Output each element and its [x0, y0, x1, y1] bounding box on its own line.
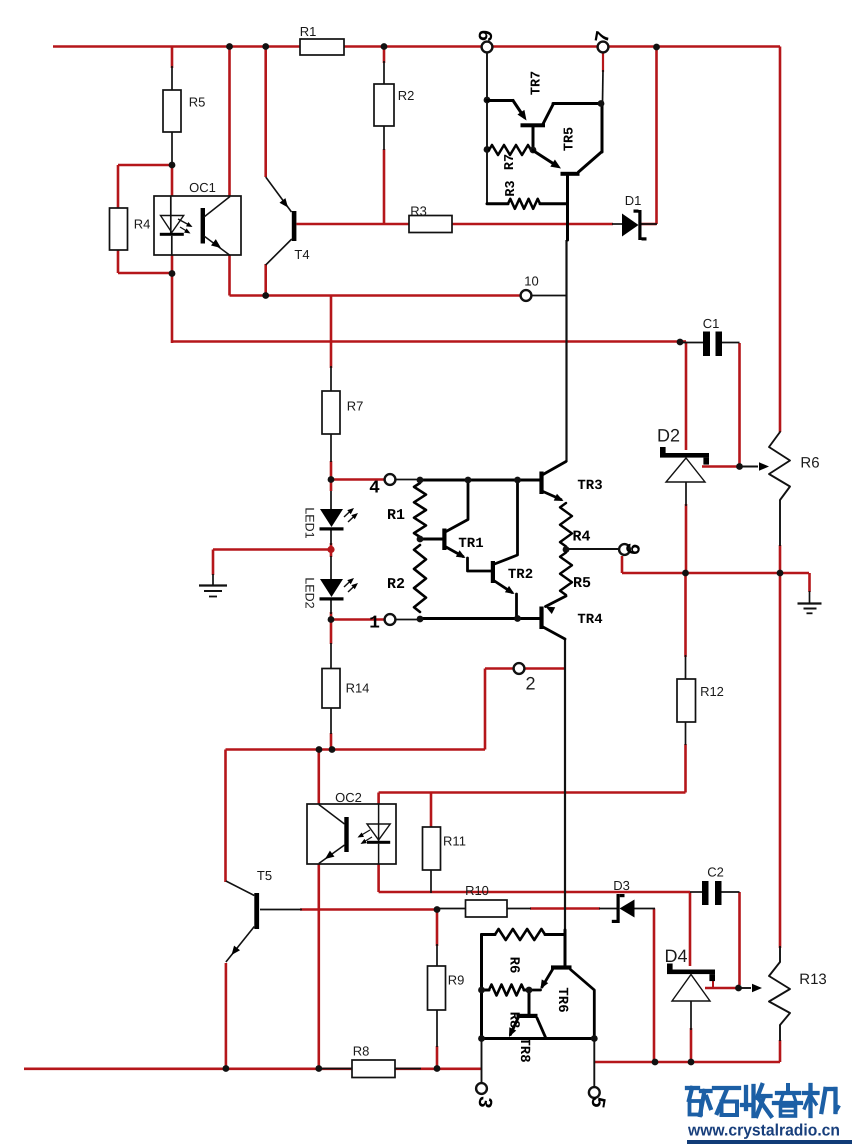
svg-text:TR3: TR3 — [577, 478, 602, 494]
svg-text:4: 4 — [369, 479, 380, 499]
svg-text:LED2: LED2 — [303, 577, 317, 608]
svg-text:2: 2 — [525, 674, 535, 694]
svg-text:T5: T5 — [257, 868, 272, 883]
svg-text:R5: R5 — [573, 575, 591, 592]
svg-text:LED1: LED1 — [303, 507, 317, 538]
svg-text:TR7: TR7 — [530, 71, 545, 95]
svg-text:R1: R1 — [387, 507, 405, 524]
svg-text:R5: R5 — [189, 95, 206, 110]
svg-text:1: 1 — [369, 614, 380, 634]
svg-text:3: 3 — [471, 1094, 496, 1110]
svg-text:R9: R9 — [448, 973, 465, 988]
svg-text:R7: R7 — [503, 154, 518, 170]
svg-text:R3: R3 — [410, 204, 427, 219]
svg-text:TR4: TR4 — [577, 612, 602, 628]
svg-text:T4: T4 — [294, 247, 309, 262]
svg-text:9: 9 — [475, 28, 500, 44]
svg-text:R6: R6 — [506, 957, 522, 974]
svg-text:OC1: OC1 — [189, 180, 216, 195]
svg-text:R2: R2 — [387, 576, 405, 593]
svg-text:R7: R7 — [347, 399, 364, 414]
svg-text:5: 5 — [584, 1094, 609, 1110]
svg-text:R13: R13 — [799, 971, 827, 988]
svg-text:TR2: TR2 — [508, 567, 533, 583]
svg-text:R14: R14 — [346, 681, 370, 696]
svg-text:R1: R1 — [300, 24, 317, 39]
svg-text:R4: R4 — [572, 529, 590, 546]
svg-text:R8: R8 — [506, 1012, 522, 1029]
svg-text:R6: R6 — [800, 455, 819, 472]
svg-text:R8: R8 — [353, 1044, 370, 1059]
svg-text:D1: D1 — [625, 193, 642, 208]
svg-text:D4: D4 — [664, 946, 687, 966]
svg-text:R2: R2 — [398, 88, 415, 103]
svg-text:R3: R3 — [504, 180, 519, 196]
svg-text:D3: D3 — [613, 878, 630, 893]
svg-text:R4: R4 — [134, 217, 151, 232]
svg-text:C2: C2 — [707, 865, 724, 880]
svg-text:OC2: OC2 — [335, 790, 362, 805]
svg-text:R10: R10 — [465, 883, 489, 898]
svg-text:7: 7 — [592, 29, 617, 45]
svg-text:R12: R12 — [700, 684, 724, 699]
svg-text:D2: D2 — [657, 426, 680, 446]
svg-text:TR5: TR5 — [563, 127, 578, 151]
svg-text:10: 10 — [524, 274, 538, 289]
svg-text:TR8: TR8 — [516, 1037, 532, 1062]
svg-text:R11: R11 — [443, 834, 466, 849]
svg-text:www.crystalradio.cn: www.crystalradio.cn — [687, 1122, 840, 1140]
svg-text:TR1: TR1 — [458, 536, 483, 552]
svg-text:C1: C1 — [703, 316, 720, 331]
svg-text:TR6: TR6 — [554, 987, 570, 1012]
